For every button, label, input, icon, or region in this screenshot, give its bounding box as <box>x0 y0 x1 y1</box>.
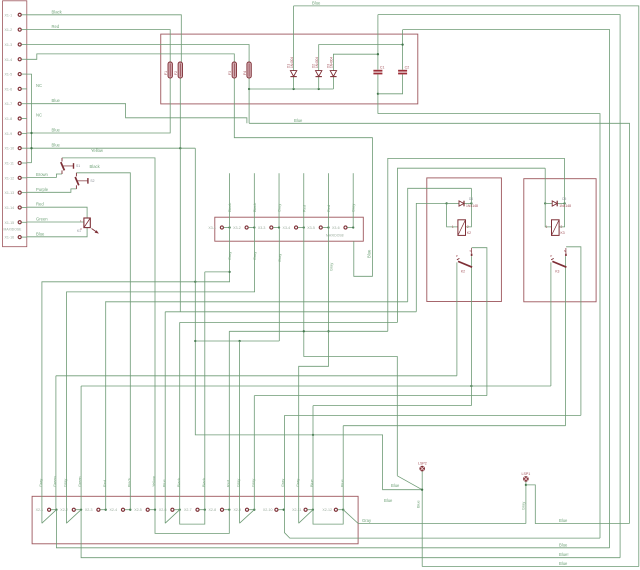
pin X1-16 <box>18 236 21 239</box>
fuse F3 <box>228 62 236 78</box>
wire X2-9 feed riser <box>239 341 241 523</box>
pin stub X1-15 <box>22 221 27 223</box>
wire D4 cathode to node <box>464 202 471 204</box>
svg-text:F2: F2 <box>174 71 178 75</box>
wire rail C2 top to right down <box>403 30 610 548</box>
pin X1-5 <box>18 73 21 76</box>
svg-text:X2-4: X2-4 <box>110 508 118 512</box>
pin X2-8 <box>220 508 223 511</box>
svg-text:X1-6: X1-6 <box>5 87 13 91</box>
pin stub X2-6 <box>174 509 179 511</box>
filter module outline <box>161 34 418 104</box>
wire X2-6 feed riser <box>164 312 166 523</box>
wire K3 coil pin1 <box>545 203 551 227</box>
pin stub X2-11 <box>308 509 313 511</box>
wire stub above X3-2 <box>253 173 255 227</box>
svg-text:Blue: Blue <box>312 0 321 5</box>
svg-text:X1-10: X1-10 <box>5 147 15 151</box>
svg-text:X1-14: X1-14 <box>5 206 15 210</box>
wire trunk relay K3 arm to X2-12 <box>343 425 565 427</box>
wire to D4 anode <box>447 202 459 204</box>
junction at X2-5 <box>154 509 156 511</box>
svg-text:X3-1: X3-1 <box>208 226 216 230</box>
wire diagonal into LSP2 junction <box>397 476 422 490</box>
wire D2 anode to C2 <box>319 45 403 71</box>
pin X2-2 <box>72 508 75 511</box>
svg-text:X2-11: X2-11 <box>292 508 301 512</box>
relay module K2 outline <box>427 178 502 302</box>
svg-text:X3-3: X3-3 <box>258 226 266 230</box>
wire D1 anode up <box>293 6 295 71</box>
wire relay K3 contact S loop <box>566 247 581 416</box>
pin X1-1 <box>18 13 21 16</box>
wire stub above X3-4 <box>303 173 305 227</box>
svg-text:X3-6: X3-6 <box>332 226 340 230</box>
wire X2-11 riser <box>312 406 314 510</box>
pin X3-5 <box>319 226 322 229</box>
wire to D5 anode <box>545 202 552 204</box>
svg-text:C1: C1 <box>380 66 385 70</box>
wire Blue X2-12 riser <box>342 426 344 510</box>
junction at X2-12 <box>342 509 344 511</box>
junction F4 diode rail <box>248 88 250 90</box>
wire K2 pin2 up <box>470 188 472 203</box>
wire diagonal into X2-6 <box>165 510 180 524</box>
wire diagonal into X2-2 <box>67 510 82 524</box>
pin X2-7 <box>196 508 199 511</box>
svg-text:LSP1: LSP1 <box>522 472 531 476</box>
svg-text:X1-15: X1-15 <box>5 221 15 225</box>
wire C2 top vertical <box>402 30 404 70</box>
svg-text:Gray: Gray <box>362 518 372 523</box>
pin X1-12 <box>18 176 21 179</box>
svg-text:Gray: Gray <box>39 479 43 487</box>
wire relay K3 pin2 trunk <box>388 158 565 331</box>
svg-text:Red: Red <box>52 24 60 29</box>
wire C2 bottom to C1 bottom <box>378 74 403 93</box>
wire relay K2 arm down <box>470 256 472 406</box>
pin X1-6 <box>18 87 21 90</box>
pin X2-11 <box>304 508 307 511</box>
pin stub X1-6 <box>22 88 27 90</box>
wire trunk relay K2 feed to X2-6 feed <box>165 311 416 313</box>
svg-text:Black: Black <box>90 164 101 169</box>
wire D3 to rail <box>332 77 334 89</box>
svg-text:K3: K3 <box>555 270 559 274</box>
pin X1-8 <box>18 117 21 120</box>
pin stub X3-1 <box>224 227 230 229</box>
wire X3-1 Gray to X2-1 feed <box>42 228 230 524</box>
svg-text:Blue: Blue <box>310 479 314 487</box>
wire Yellow S1 to X2-5 <box>62 158 155 510</box>
junction K3 diode cathode <box>563 202 565 204</box>
pin X1-15 <box>18 221 21 224</box>
wire trunk X2-7 to X3-1 <box>205 271 230 273</box>
wire C1 bottom vertical <box>377 74 379 113</box>
junction D2 cathode <box>318 88 320 90</box>
wire D5 cathode to node <box>558 202 565 204</box>
pin stub X1-10 <box>22 147 27 149</box>
wire X1-7 Blue to fuse F4 rail <box>27 104 247 124</box>
junction C1 top <box>377 53 379 55</box>
svg-text:S1: S1 <box>76 164 80 168</box>
svg-text:1: 1 <box>546 225 548 229</box>
wire trunk X2-9 to relay K2 contact S <box>254 395 487 397</box>
svg-text:X2-3: X2-3 <box>85 508 93 512</box>
pin stub X2-12 <box>338 509 343 511</box>
wire X3-3 Gray down <box>278 228 280 342</box>
svg-text:Blue: Blue <box>52 98 61 103</box>
svg-text:Gray: Gray <box>352 204 356 212</box>
svg-text:S2: S2 <box>90 179 94 183</box>
pin X1-11 <box>18 161 21 164</box>
wire LSP1 down <box>525 482 527 524</box>
svg-text:Gray: Gray <box>64 479 68 487</box>
junction LSP2 <box>421 489 423 491</box>
pin stub X1-12 <box>22 177 27 179</box>
pin X1-2 <box>18 28 21 31</box>
pin stub X2-10 <box>278 509 283 511</box>
wire stub above X3-3 <box>278 173 280 227</box>
capacitor C1 <box>373 66 384 75</box>
wire U loop X2-11 to X2-12 <box>313 510 343 524</box>
wire LSP1 right branch to Blue rail <box>526 485 630 524</box>
wire relay K3 coil feed trunk <box>398 168 546 322</box>
wire diode cathode rail <box>249 88 333 90</box>
pin stub X1-3 <box>22 43 27 45</box>
svg-text:Blue: Blue <box>384 498 393 503</box>
svg-text:Red: Red <box>103 480 107 487</box>
svg-text:Gray: Gray <box>330 263 334 271</box>
pin stub X3-4 <box>298 227 304 229</box>
diode D5 1N4148 <box>552 197 571 208</box>
pin X2-5 <box>146 508 149 511</box>
relay switch contacts K3 <box>550 248 566 274</box>
svg-text:S: S <box>564 249 566 253</box>
pin X2-10 <box>275 508 278 511</box>
junction at X3-5 <box>327 226 329 228</box>
junction Blue bus at Gray trunk <box>194 340 196 342</box>
svg-text:F4: F4 <box>243 71 247 75</box>
wire K2 coil pin1 <box>447 203 458 227</box>
svg-text:P: P <box>550 254 552 258</box>
wire Blue bus X1-10 to LSP2 <box>195 148 422 490</box>
junction at X2-9 <box>253 509 255 511</box>
wire X1-10 Blue bus east <box>27 147 195 149</box>
svg-text:Blue: Blue <box>559 542 568 547</box>
wire bottom Blue rail <box>422 566 639 568</box>
junction at X2-7 <box>204 509 206 511</box>
junction fuse F2 bottom <box>179 147 181 149</box>
diode D3 1N4004 <box>326 57 336 77</box>
svg-text:LSP2: LSP2 <box>418 462 427 466</box>
connector X2 body <box>32 496 358 544</box>
svg-text:Black: Black <box>202 478 206 487</box>
wire stub above X3-6 <box>352 173 354 227</box>
pin stub X3-5 <box>323 227 329 229</box>
wire relay K2 diode feed <box>416 203 446 311</box>
svg-text:Blue: Blue <box>559 561 568 566</box>
junction C2 top <box>401 43 403 45</box>
connector X3 body <box>215 217 363 241</box>
switch S1 <box>61 158 80 174</box>
svg-text:K3: K3 <box>561 231 565 235</box>
junction at X3-6 <box>352 226 354 228</box>
pin stub X2-8 <box>224 509 229 511</box>
svg-text:Black: Black <box>177 478 181 487</box>
pin X2-6 <box>171 508 174 511</box>
pin stub X2-1 <box>51 509 56 511</box>
svg-text:Blue: Blue <box>559 518 568 523</box>
junction D1 cathode <box>292 88 294 90</box>
wire trunk X2-10 to relay K3 contact S <box>285 414 581 416</box>
wire Blue rail D1 to right edge down <box>294 6 639 567</box>
pin X3-1 <box>220 226 223 229</box>
wire D3 anode to C1 <box>333 54 378 70</box>
svg-text:Black: Black <box>228 203 232 212</box>
fuse F1 <box>164 62 172 78</box>
svg-text:X1-4: X1-4 <box>5 58 13 62</box>
pin stub X1-8 <box>22 118 27 120</box>
svg-text:Blue: Blue <box>36 231 45 236</box>
pin X1-4 <box>18 58 21 61</box>
svg-text:Blue: Blue <box>366 249 371 258</box>
svg-text:Yellow: Yellow <box>152 476 156 487</box>
junction at X3-2 <box>253 226 255 228</box>
pin stub X1-14 <box>22 206 27 208</box>
wire Black S2 to X2-4 <box>76 173 130 510</box>
wire Blue rail F4 to right down <box>249 123 629 523</box>
wire diagonal into X2-9 <box>240 510 255 524</box>
pin X2-12 <box>334 508 337 511</box>
pin X1-3 <box>18 43 21 46</box>
wire X1-3 to fuse F4 <box>27 45 249 63</box>
wire LSP2 down to bottom rail <box>421 471 423 566</box>
wire X3-2 Gray to X2-2 feed <box>67 228 255 524</box>
svg-text:Blue: Blue <box>417 500 421 508</box>
pin stub X1-4 <box>22 58 27 60</box>
wire X3-5 riser to X2-11 feed <box>299 228 329 524</box>
svg-text:X2-8: X2-8 <box>209 508 217 512</box>
svg-text:Blue: Blue <box>52 143 61 148</box>
svg-text:NC: NC <box>36 113 42 118</box>
junction at X2-4 <box>129 509 131 511</box>
junction K2 diode cathode <box>470 202 472 204</box>
svg-text:D4: D4 <box>469 197 473 201</box>
svg-text:X1-7: X1-7 <box>5 102 13 106</box>
junction relay K2 arm <box>470 385 472 387</box>
svg-text:Gray: Gray <box>296 479 300 487</box>
wire trunk relay K3 feed to X2-6 <box>180 321 398 323</box>
wire relay K2 contact S loop <box>472 248 487 396</box>
svg-text:Yellow: Yellow <box>91 148 104 153</box>
pin stub X1-7 <box>22 103 27 105</box>
junction Blue bus at X2-11 <box>312 434 314 436</box>
svg-text:X2-12: X2-12 <box>322 508 332 512</box>
wire X1-11 stub to bus <box>27 162 32 164</box>
wire D2 to rail <box>318 77 320 89</box>
wire K3 pin2 up <box>564 158 566 203</box>
svg-text:1N4004: 1N4004 <box>290 57 294 68</box>
relay coil K3 <box>546 220 565 236</box>
junction C1 bottom <box>377 93 379 95</box>
pin stub X2-3 <box>100 509 105 511</box>
pin stub X1-11 <box>22 162 27 164</box>
wire relay K3 pivot down <box>550 262 552 386</box>
svg-text:X2-5: X2-5 <box>134 508 142 512</box>
junction K2 diode anode <box>445 202 447 204</box>
wire X2-2 riser <box>80 386 82 510</box>
svg-text:1N4148: 1N4148 <box>559 204 571 208</box>
wire X2-7 riser <box>204 272 206 510</box>
diode D2 1N4004 <box>312 57 322 77</box>
pin stub X3-6 <box>347 227 353 229</box>
pin X2-4 <box>121 508 124 511</box>
svg-text:Red: Red <box>302 205 306 212</box>
svg-text:NC: NC <box>36 83 42 88</box>
pin stub X2-4 <box>125 509 130 511</box>
wire stub above X3-1 <box>229 173 231 227</box>
junction at X3-4 <box>303 226 305 228</box>
svg-text:P: P <box>456 254 458 258</box>
svg-text:2: 2 <box>561 225 563 229</box>
junction at X2-8 <box>228 509 230 511</box>
svg-text:F1: F1 <box>164 71 168 75</box>
pin stub X3-3 <box>273 227 279 229</box>
svg-text:2: 2 <box>467 225 469 229</box>
svg-text:Black: Black <box>253 203 257 212</box>
relay module K3 outline <box>524 179 596 302</box>
junction LSP1 <box>525 484 527 486</box>
junction at X2-11 <box>312 509 314 511</box>
junction at X2-10 <box>283 509 285 511</box>
svg-text:Blue: Blue <box>391 483 400 488</box>
wire fuse F4 bottom down <box>248 78 250 123</box>
wire K2 coil pin2 <box>466 203 472 227</box>
junction at X3-1 <box>228 226 230 228</box>
svg-text:Gray: Gray <box>253 252 257 260</box>
fuse F2 <box>174 62 182 78</box>
junction X3-1 column <box>228 271 230 273</box>
capacitor C2 <box>398 66 409 75</box>
svg-text:Blue!: Blue! <box>559 552 569 557</box>
svg-text:F3: F3 <box>228 71 232 75</box>
svg-text:K2: K2 <box>461 270 465 274</box>
junction at X2-6 <box>179 509 181 511</box>
pin stub X3-2 <box>249 227 255 229</box>
pin stub X1-5 <box>22 73 27 75</box>
svg-text:X1-1: X1-1 <box>5 13 13 17</box>
svg-text:C2: C2 <box>405 66 410 70</box>
svg-text:Gray: Gray <box>278 204 282 212</box>
svg-text:X3-2: X3-2 <box>233 226 241 230</box>
pin X3-3 <box>270 226 273 229</box>
wire K3 feed down <box>544 168 546 203</box>
svg-text:Blue: Blue <box>340 479 344 487</box>
junction at X2-2 <box>80 509 82 511</box>
wire relay K2 coil pin2 loop <box>408 188 472 301</box>
pin stub X2-2 <box>76 509 81 511</box>
junction at X2-1 <box>55 509 57 511</box>
relay coil K1 <box>77 218 99 234</box>
svg-text:1N4148: 1N4148 <box>466 204 478 208</box>
wire X1-14 Red to coil K1 top <box>27 207 87 218</box>
pin X2-3 <box>97 508 100 511</box>
wire X1-15 Green to coil K1 <box>27 221 84 223</box>
wire X2-8 riser <box>228 331 230 509</box>
junction at X3-3 <box>278 226 280 228</box>
svg-text:X1-3: X1-3 <box>5 43 13 47</box>
pin X1-13 <box>18 191 21 194</box>
junction X3-4 riser on Red trunk <box>303 330 305 332</box>
wire trunk Red X2-3 to relay K2 <box>106 301 408 303</box>
solder pad LSP1 <box>522 472 531 482</box>
svg-text:X1-11: X1-11 <box>5 162 14 166</box>
svg-text:X1-2: X1-2 <box>5 28 13 32</box>
relay switch contacts K2 <box>456 248 472 274</box>
svg-text:Red: Red <box>327 205 331 212</box>
solder pad LSP2 <box>418 462 427 472</box>
pin X1-14 <box>18 206 21 209</box>
pin stub X2-9 <box>249 509 254 511</box>
junction X1-9 bus <box>30 132 32 134</box>
fuse F4 <box>243 62 251 78</box>
svg-text:Black: Black <box>52 9 63 14</box>
svg-text:Gray: Gray <box>278 254 282 262</box>
pin stub X2-7 <box>199 509 204 511</box>
svg-text:X1-9: X1-9 <box>5 132 13 136</box>
wire X1-13 Purple to S2 <box>27 189 76 192</box>
svg-text:X1-16: X1-16 <box>5 236 15 240</box>
junction K3 diode anode <box>544 202 546 204</box>
pin stub X2-5 <box>150 509 155 511</box>
svg-text:X1-13: X1-13 <box>5 191 15 195</box>
svg-text:K2: K2 <box>467 231 471 235</box>
svg-text:X1-5: X1-5 <box>5 73 13 77</box>
wire X1-4 to fuse F3 <box>27 54 234 62</box>
svg-text:Brown: Brown <box>36 172 49 177</box>
wire rail C1 top to right down <box>378 15 620 558</box>
wire Gray rail X2-10 to right <box>285 510 601 538</box>
wire X2-6 riser <box>179 322 181 509</box>
svg-text:Gray: Gray <box>228 252 232 260</box>
wire X2-3 riser <box>105 301 107 509</box>
svg-text:Blue: Blue <box>162 479 166 487</box>
wire D1 to rail <box>293 77 295 89</box>
pin stub X1-2 <box>22 29 27 31</box>
wire U loop X2-5 to X2-8 <box>155 510 229 534</box>
svg-text:1: 1 <box>452 225 454 229</box>
svg-text:X3-5: X3-5 <box>307 226 315 230</box>
pin X2-9 <box>245 508 248 511</box>
svg-text:X2-7: X2-7 <box>184 508 192 512</box>
wire relay K3 arm down <box>565 256 567 426</box>
pin X2-1 <box>48 508 51 511</box>
junction X1-10 bus <box>30 147 32 149</box>
wire X1-1 Black to fuse F2 <box>27 15 181 62</box>
svg-text:X1-12: X1-12 <box>5 176 15 180</box>
wire Blue rail X2-2 bottom <box>81 510 620 558</box>
wire fuse F2 bottom down to relay feed trunk <box>179 78 181 312</box>
relay coil K2 <box>452 220 471 236</box>
wire Gray rail C1 bottom to right down <box>378 114 600 538</box>
junction X2-9 feed <box>238 340 240 342</box>
wire C1 top vertical <box>377 15 379 70</box>
pin X1-10 <box>18 147 21 150</box>
svg-text:Gray: Gray <box>281 479 285 487</box>
wire trunk X2-11 dot to relay K2 arm <box>313 405 471 407</box>
wire trunk Green X2-2 to relay K3 pivot <box>81 385 551 387</box>
